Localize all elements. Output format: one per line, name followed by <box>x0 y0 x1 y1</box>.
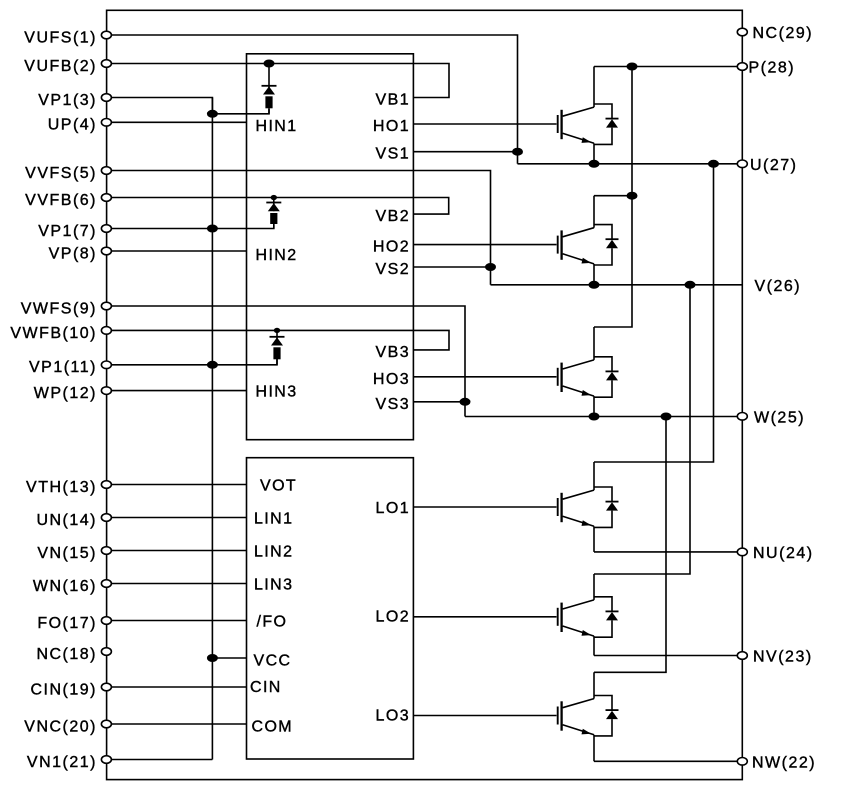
wire P to high-side collectors <box>594 67 632 328</box>
pin VVFS(5) <box>25 165 111 182</box>
wire LO3 gate <box>413 715 556 717</box>
pin U(27) <box>737 157 797 174</box>
high-side driver block U1 <box>247 54 414 440</box>
node V/Q2 emitter junction <box>589 281 600 289</box>
wire CIN(19) to CIN <box>107 686 247 688</box>
node P junction <box>627 63 638 71</box>
low-side driver block U2 <box>247 458 414 759</box>
wire VP1(3) to bus <box>107 98 213 114</box>
wire WN(16) to LIN3 <box>107 583 247 585</box>
node VUFB junction <box>264 60 275 68</box>
freewheel diode D6 <box>594 696 619 736</box>
svg-text:VVFS(5): VVFS(5) <box>25 165 97 182</box>
wire WP(12) to HIN3 <box>107 390 247 392</box>
svg-text:VTH(13): VTH(13) <box>26 479 97 496</box>
svg-text:NU(24): NU(24) <box>753 545 814 562</box>
svg-text:NC(29): NC(29) <box>753 25 814 42</box>
wire VTH(13) to VOT <box>107 484 247 486</box>
node VWFB junction <box>274 328 280 333</box>
pin FO(17) <box>37 615 111 632</box>
node VS2 junction <box>485 263 496 271</box>
svg-text:UN(14): UN(14) <box>36 512 97 529</box>
node bus/VP1(3) junction <box>207 110 218 118</box>
pin NC(18) <box>36 646 111 663</box>
freewheel diode D5 <box>594 597 619 637</box>
node bus/VP1(11) junction <box>207 361 218 369</box>
svg-text:VWFB(10): VWFB(10) <box>10 325 97 342</box>
svg-text:VUFS(1): VUFS(1) <box>24 29 97 46</box>
freewheel diode D2 <box>594 225 619 265</box>
svg-text:LO2: LO2 <box>376 608 410 625</box>
node W rail junction <box>661 413 672 421</box>
svg-text:VP1(3): VP1(3) <box>38 92 97 109</box>
pin VP1(7) <box>38 223 111 240</box>
wire bus to bootstrap R1 <box>212 109 269 114</box>
wire HO2 gate <box>413 244 556 246</box>
svg-text:HO2: HO2 <box>373 239 410 256</box>
svg-text:VS3: VS3 <box>376 396 410 413</box>
pin VNC(20) <box>24 718 111 735</box>
pin WN(16) <box>33 578 112 595</box>
wire V rail <box>491 284 743 286</box>
pin VUFS(1) <box>24 29 111 46</box>
wire VN(15) to LIN2 <box>107 550 247 552</box>
svg-text:VWFS(9): VWFS(9) <box>21 300 97 317</box>
transistor Q3 <box>558 327 594 417</box>
wire VP1/VCC bus <box>211 98 213 760</box>
pin NC(29) <box>737 25 813 42</box>
pin NU(24) <box>737 545 813 562</box>
transistor Q2 <box>558 196 594 285</box>
pin VWFB(10) <box>10 325 111 342</box>
pin P(28) <box>737 60 795 77</box>
bootstrap diode DB3 <box>270 330 285 345</box>
bootstrap diode DB2 <box>266 198 281 212</box>
svg-text:LIN2: LIN2 <box>254 543 293 560</box>
transistor Q1 <box>558 67 594 164</box>
wire VP1(7) to bootstrap R2 <box>107 225 274 229</box>
svg-text:VB1: VB1 <box>376 92 410 109</box>
wire VP1(11) to bootstrap R3 <box>107 359 277 365</box>
wire LO1 gate <box>413 506 556 508</box>
svg-text:VP1(11): VP1(11) <box>29 359 97 376</box>
svg-text:VP(8): VP(8) <box>49 245 97 262</box>
svg-text:W(25): W(25) <box>754 409 805 426</box>
svg-text:VN(15): VN(15) <box>37 545 97 562</box>
pin NV(23) <box>737 649 812 666</box>
wire VWFS(9) to node VS3 <box>107 306 465 417</box>
svg-text:NC(18): NC(18) <box>36 646 97 663</box>
wire VN1(21) to bus bottom <box>107 759 213 761</box>
pin W(25) <box>737 409 805 426</box>
module outline <box>107 10 743 779</box>
pin VWFS(9) <box>21 300 112 317</box>
wire UN(14) to LIN1 <box>107 517 247 519</box>
wire V to Q5 collector <box>594 285 690 574</box>
svg-text:VS1: VS1 <box>376 146 410 163</box>
wire P rail <box>594 66 742 68</box>
svg-text:HIN1: HIN1 <box>256 118 298 135</box>
svg-text:CIN: CIN <box>250 679 282 696</box>
svg-text:VOT: VOT <box>260 477 297 494</box>
node bus/VP1(7) junction <box>207 225 218 233</box>
transistor Q6 <box>558 672 594 761</box>
pin NW(22) <box>737 754 816 771</box>
pin VN(15) <box>37 545 111 562</box>
wire LO2 gate <box>413 616 556 618</box>
svg-text:VN1(21): VN1(21) <box>27 754 97 771</box>
pin UP(4) <box>48 117 112 134</box>
transistor Q5 <box>558 574 594 656</box>
svg-text:LIN3: LIN3 <box>254 576 293 593</box>
wire W to Q6 collector <box>594 417 666 673</box>
bootstrap resistor RB3 <box>273 347 280 359</box>
svg-text:HO1: HO1 <box>373 118 410 135</box>
pin VUFB(2) <box>24 58 111 75</box>
pin VP1(3) <box>38 92 111 109</box>
wire VCC stub <box>212 657 246 659</box>
wire VS3 <box>413 401 465 403</box>
wire VS1 <box>413 151 517 153</box>
svg-text:HO3: HO3 <box>373 371 410 388</box>
pin V(26) <box>755 278 802 295</box>
svg-text:/FO: /FO <box>257 613 288 630</box>
bootstrap diode DB1 <box>262 64 277 95</box>
pin VTH(13) <box>26 479 111 496</box>
wire U to Q4 collector <box>594 164 714 462</box>
pin VP1(11) <box>29 359 111 376</box>
svg-text:LO3: LO3 <box>376 707 410 724</box>
node V rail junction <box>685 281 696 289</box>
wire NU rail <box>594 551 742 553</box>
pin VVFB(6) <box>25 192 111 209</box>
node bus/VCC junction <box>207 654 218 662</box>
wire HO1 gate <box>413 123 556 125</box>
svg-text:VNC(20): VNC(20) <box>24 718 97 735</box>
node U rail junction <box>708 160 719 168</box>
wire U rail <box>518 163 743 165</box>
freewheel diode D1 <box>594 104 619 144</box>
wire VVFB(6) to VB2 <box>107 198 449 215</box>
svg-text:VP1(7): VP1(7) <box>38 223 97 240</box>
pin UN(14) <box>36 512 111 529</box>
svg-text:VS2: VS2 <box>376 261 410 278</box>
wire VNC(20) to COM <box>107 723 247 725</box>
node VVFB junction <box>271 195 277 200</box>
wire VWFB(10) to VB3 <box>107 330 449 350</box>
svg-text:HIN3: HIN3 <box>256 383 298 400</box>
wire FO(17) to /FO <box>107 620 247 622</box>
svg-text:WP(12): WP(12) <box>34 385 97 402</box>
pin CIN(19) <box>30 681 111 698</box>
pin WP(12) <box>34 385 112 402</box>
wire NW rail <box>594 760 742 762</box>
svg-text:LIN1: LIN1 <box>254 510 293 527</box>
pin VP(8) <box>49 245 112 262</box>
wire W rail <box>465 416 742 418</box>
node VS3 junction <box>460 398 471 406</box>
wire VS2 <box>413 266 490 268</box>
svg-text:COM: COM <box>252 718 294 735</box>
svg-text:VB2: VB2 <box>376 208 410 225</box>
svg-text:FO(17): FO(17) <box>37 615 97 632</box>
svg-text:CIN(19): CIN(19) <box>30 681 97 698</box>
node Q2 collector junction <box>627 192 638 200</box>
node VS1 junction <box>512 148 523 156</box>
wire VP(8) to HIN2 <box>107 250 247 252</box>
svg-text:UP(4): UP(4) <box>48 117 97 134</box>
wire VUFB(2) to VB1 <box>107 64 449 98</box>
wire UP(4) to HIN1 <box>107 121 247 123</box>
transistor Q4 <box>558 462 594 552</box>
bootstrap resistor RB2 <box>270 213 277 224</box>
bootstrap resistor RB1 <box>265 96 272 108</box>
svg-text:NV(23): NV(23) <box>753 649 813 666</box>
svg-text:VUFB(2): VUFB(2) <box>24 58 97 75</box>
svg-text:NW(22): NW(22) <box>752 754 816 771</box>
wire NV rail <box>594 655 742 657</box>
pin VN1(21) <box>27 754 111 771</box>
svg-text:VB3: VB3 <box>376 344 410 361</box>
svg-text:VVFB(6): VVFB(6) <box>25 192 97 209</box>
wire VVFS(5) to node VS2 <box>107 171 491 285</box>
svg-text:U(27): U(27) <box>750 157 798 174</box>
freewheel diode D4 <box>594 487 619 527</box>
wire Q2 collector stub <box>594 195 632 197</box>
wire VUFS(1) to node VS1 <box>107 35 518 164</box>
node W/Q3 emitter junction <box>589 413 600 421</box>
freewheel diode D3 <box>594 357 619 397</box>
svg-text:V(26): V(26) <box>755 278 802 295</box>
wire HO3 gate <box>413 376 556 378</box>
svg-text:LO1: LO1 <box>376 500 410 517</box>
node U/Q1 emitter junction <box>589 160 600 168</box>
svg-text:P(28): P(28) <box>749 60 796 77</box>
svg-text:WN(16): WN(16) <box>33 578 97 595</box>
svg-text:VCC: VCC <box>254 652 292 669</box>
svg-text:HIN2: HIN2 <box>256 247 298 264</box>
